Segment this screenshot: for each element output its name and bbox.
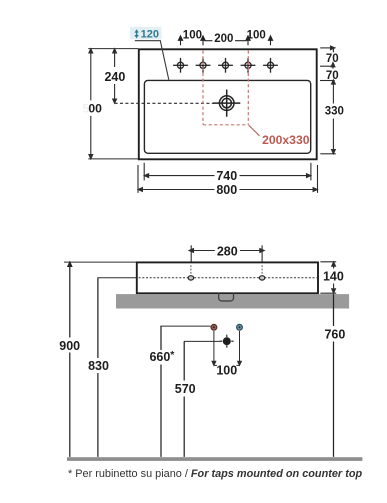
red dashed vertical line left (200 zone) [202,51,204,125]
svg-text:760: 760 [324,327,345,341]
svg-text:830: 830 [88,359,109,373]
svg-text:120: 120 [141,29,159,41]
supply level line (to hot tap) [160,325,210,327]
red leader line to 200x330 label [249,125,260,136]
280 extension line right [261,245,263,261]
dimension 240 line (vertical) [113,49,117,103]
top dimension arrows at holes [178,36,272,45]
fine dashed drop line left hole [190,265,192,276]
dimension 740 line [144,174,310,178]
drain symbol (crosshair circles) [213,90,240,117]
svg-text:200x330: 200x330 [262,133,310,147]
counter top gray band [116,294,349,308]
dimension 140 vertical line [332,262,336,293]
hot water supply (red circle) [211,324,217,330]
faucet hole 3 [218,58,233,73]
svg-text:660: 660 [149,350,170,364]
faucet hole 2 [196,58,211,73]
120 leader polyline [135,41,169,80]
svg-text:*: * [170,349,175,361]
svg-text:740: 740 [216,169,237,183]
120 up-down arrow icon [134,29,138,38]
outer rim rectangle (top view of washbasin 800x500) [139,49,317,159]
830 top extension line [97,277,136,279]
svg-text:100: 100 [247,29,266,41]
inner basin rectangle [144,80,310,153]
dimension 570 vertical line [183,341,185,457]
280 extension line left [190,245,192,261]
cold water supply (blue circle) [237,324,243,330]
left top extension line [88,48,138,50]
dimension 830 vertical line [97,278,99,457]
faucet hole 5 [263,58,278,73]
740 extension ticks [143,163,145,181]
900 top extension line [64,261,136,263]
red dashed bottom line of 200x330 zone [203,124,248,126]
dash-dot centerline through drain [115,102,214,104]
tap drop line right with arrow [238,331,242,365]
drain stub below basin [219,293,234,301]
fine dashed drop line right hole [261,265,263,276]
extension line at basin bottom (right) [320,153,336,155]
dimension 660 vertical line [160,326,162,457]
floor bar [67,457,362,461]
svg-text:* Per rubinetto su piano / For: * Per rubinetto su piano / For taps moun… [68,468,362,480]
dimension 500 line (vertical, left) [89,49,93,159]
dimension 100 line (taps) [214,364,217,366]
dimension 760 vertical line (right) [333,294,335,457]
140 extension lines [320,261,336,263]
svg-text:800: 800 [216,183,237,197]
overflow hole right [259,276,264,280]
dimension 800 line [138,188,317,192]
overflow hole left [188,276,193,280]
dimension 900 vertical line [68,262,72,457]
top dimension line segments around 200 label [204,40,212,42]
svg-text:00: 00 [88,102,102,116]
red dashed vertical line right (200 zone) [247,51,249,125]
faucet hole 4 [241,58,256,73]
120 highlight box [130,27,162,40]
svg-text:140: 140 [323,269,344,283]
extension line at basin top with up arrow, start of 330 [320,80,335,84]
svg-text:570: 570 [175,382,196,396]
drain level line [184,340,220,342]
svg-text:240: 240 [104,70,125,84]
faucet hole 1 [173,58,188,73]
svg-text:200: 200 [214,33,233,45]
dimension 280 line [189,249,264,253]
svg-text:100: 100 [216,363,237,377]
front view rectangle [137,262,318,293]
tap drop line left with arrow [212,331,216,365]
dashed centerline front view [139,277,317,279]
svg-text:330: 330 [325,105,344,117]
svg-text:100: 100 [183,29,202,41]
right extension line at rim top with arrow [320,46,335,52]
800 extension ticks [137,165,139,193]
left bottom extension line [88,158,138,160]
waste pipe (dark circle with ticks) [223,337,231,345]
svg-text:280: 280 [217,244,238,258]
extension line at faucet axis with up arrow [320,63,335,69]
dimension 330 vertical line [332,81,336,154]
svg-text:900: 900 [59,339,80,353]
